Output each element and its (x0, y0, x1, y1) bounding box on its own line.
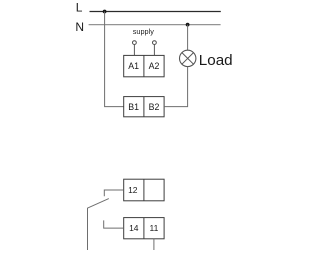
control terminals box B1 B2 (124, 97, 164, 117)
wire A2 stub (153, 45, 155, 56)
wire contact 12 (104, 190, 123, 196)
junction on L rail (103, 10, 107, 14)
svg-text:A2: A2 (149, 61, 160, 71)
terminal circle A2 (153, 41, 157, 45)
wire A1 stub (133, 45, 135, 56)
changeover switch lever (87, 199, 109, 209)
lamp E1 Load (180, 50, 196, 66)
wire terminal 11 down (153, 239, 155, 250)
svg-text:14: 14 (129, 223, 139, 233)
svg-text:B2: B2 (149, 102, 160, 112)
svg-text:supply: supply (133, 27, 154, 36)
svg-text:11: 11 (149, 223, 158, 233)
wire L rail (90, 11, 221, 13)
junction on N rail (186, 23, 190, 27)
supply terminals box A1 A2 (124, 55, 164, 76)
svg-text:N: N (75, 20, 84, 34)
wire N rail to lamp (187, 25, 189, 51)
wire N rail (89, 24, 221, 26)
wire contact 14 (104, 220, 124, 228)
wire common pole 11 (87, 208, 89, 250)
svg-text:12: 12 (128, 185, 138, 195)
wire lamp to B2 (164, 67, 188, 107)
contact terminals box 14 11 (124, 218, 164, 239)
svg-text:B1: B1 (128, 102, 139, 112)
svg-text:L: L (76, 1, 83, 15)
svg-text:Load: Load (199, 52, 233, 69)
wire L rail to B1 (105, 12, 124, 107)
svg-text:A1: A1 (128, 61, 139, 71)
terminal circle A1 (133, 41, 137, 45)
contact terminal box 12 (124, 179, 164, 201)
